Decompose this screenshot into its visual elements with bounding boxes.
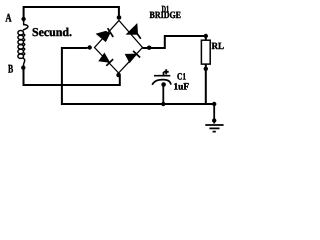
node A junction dot xyxy=(21,17,25,21)
node B junction dot xyxy=(21,66,25,70)
diode D1c (left to bottom) xyxy=(99,53,113,66)
node RL bottom lead dot xyxy=(204,67,208,71)
node rail-ground corner dot xyxy=(212,102,216,106)
svg-text:A: A xyxy=(5,11,12,24)
bridge top node dot xyxy=(117,15,122,20)
capacitor C1 plus sign xyxy=(164,69,169,74)
wire: bridge left node to DC- rail (left, down, right to ground corner) xyxy=(62,48,214,104)
wire: B lead down and AC rail to bridge bottom xyxy=(24,69,120,86)
wire: C1 lead down to DC- rail xyxy=(162,85,164,105)
capacitor C1 top plate with stub xyxy=(154,72,170,76)
bridge left node dot xyxy=(88,45,92,49)
capacitor C1 curved bottom plate xyxy=(152,80,171,85)
diode D1d (bottom to right) xyxy=(125,51,140,63)
wire: down to ground xyxy=(213,104,215,124)
wire: RL top lead xyxy=(205,36,207,41)
bridge right node dot xyxy=(147,46,151,50)
diode D1a (left to top) xyxy=(97,28,114,41)
bridge D1 diamond outline xyxy=(95,21,143,74)
svg-text:Secund.: Secund. xyxy=(32,25,72,39)
svg-text:B: B xyxy=(8,62,13,75)
inductor L1 secondary winding xyxy=(18,20,28,67)
svg-text:1uF: 1uF xyxy=(174,81,190,92)
capacitor C1 lead dot xyxy=(161,82,166,87)
node C1-rail junction dot xyxy=(161,102,165,106)
node above-ground dot xyxy=(212,118,216,122)
node RL top junction dot xyxy=(204,34,208,38)
resistor RL body xyxy=(201,40,210,64)
wire: A lead up and top rail to bridge top xyxy=(24,7,119,18)
diode D1b (top to right) xyxy=(127,24,141,39)
ground symbol xyxy=(205,125,223,132)
wire: bridge right node to RL top (right, up, right) xyxy=(143,36,206,48)
bridge bottom node dot xyxy=(116,73,121,78)
svg-text:RL: RL xyxy=(212,41,225,52)
wire: RL bottom lead to DC- rail xyxy=(205,64,207,104)
svg-text:BRIDGE: BRIDGE xyxy=(150,10,182,21)
